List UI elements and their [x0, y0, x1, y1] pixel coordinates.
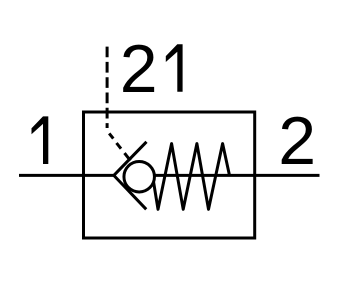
- svg-text:2: 2: [278, 103, 316, 179]
- svg-text:2: 2: [120, 31, 158, 107]
